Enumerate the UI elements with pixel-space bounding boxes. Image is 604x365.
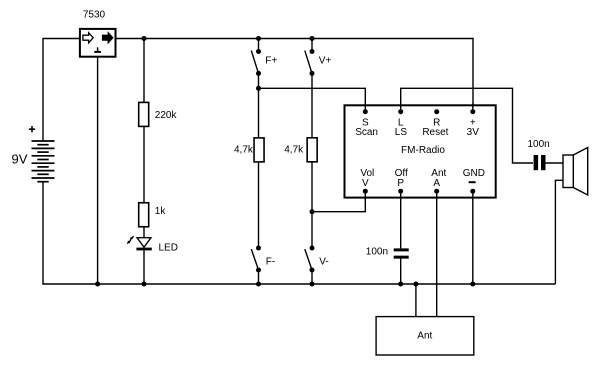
resistor R4 4,7k <box>307 138 317 162</box>
switch S3 F- <box>251 246 261 273</box>
pin Ant dot <box>434 189 439 194</box>
wire V- bottom to ground rail <box>311 270 313 284</box>
svg-text:7530: 7530 <box>83 10 106 21</box>
regulator ground symbol <box>97 47 99 51</box>
pin stubs through box edge <box>365 104 473 200</box>
battery B1 9V <box>32 141 55 182</box>
svg-text:Ant: Ant <box>417 331 432 342</box>
svg-text:220k: 220k <box>155 110 178 121</box>
regulator U2 7530 <box>80 29 116 57</box>
junction ground rail at GND pin <box>470 282 475 287</box>
regulator output arrow (solid) <box>103 33 113 43</box>
junction V-/Vol node <box>310 209 315 214</box>
svg-text:A: A <box>433 178 440 189</box>
svg-text:100n: 100n <box>366 247 388 258</box>
pin 3V dot <box>470 109 475 114</box>
wire LED to ground rail <box>143 250 145 285</box>
wire node to left 4,7k <box>258 88 260 137</box>
resistor R2 1k <box>139 203 149 227</box>
wire switch V+ top <box>311 39 313 52</box>
junction ground rail at V- <box>310 282 315 287</box>
junction top rail at F+ <box>256 36 261 41</box>
pin labels row Scan LS Reset 3V <box>355 127 479 138</box>
regulator input arrow (outline) <box>83 33 93 43</box>
junction F+/Scan node <box>256 86 261 91</box>
pin S dot <box>363 109 368 114</box>
svg-text:4,7k: 4,7k <box>284 144 304 155</box>
svg-text:9V: 9V <box>12 151 28 166</box>
wire switch V+ bottom through to 4,7k <box>311 73 313 137</box>
svg-text:V-: V- <box>319 256 328 267</box>
junction ground rail at F- <box>256 282 261 287</box>
wire GND pin to ground rail <box>472 191 474 284</box>
wire 1k to LED <box>143 227 145 238</box>
svg-text:V+: V+ <box>319 55 332 66</box>
wire battery+ to 7530 input <box>43 38 81 40</box>
svg-text:LED: LED <box>159 243 178 254</box>
wire 220k branch <box>143 39 145 103</box>
switch S2 V+ <box>305 49 315 76</box>
wire F- bottom to ground rail <box>258 270 260 284</box>
svg-text:3V: 3V <box>467 127 480 138</box>
wire 220k to 1k <box>143 127 145 202</box>
svg-text:F+: F+ <box>265 55 277 66</box>
pin Vol dot <box>363 189 368 194</box>
resistor R3 4,7k <box>254 138 264 162</box>
wire switch F+ bottom to node <box>258 73 260 88</box>
wire node F+ to Scan pin <box>259 88 366 112</box>
switch S1 F+ <box>251 49 261 76</box>
wire left 4,7k to F- switch <box>258 162 260 248</box>
svg-text:F-: F- <box>266 256 275 267</box>
pin R dot <box>434 109 439 114</box>
wire speaker bottom to ground rail <box>555 180 563 284</box>
speaker LS1 <box>563 148 588 196</box>
wire top rail 7530 output to 3V pin <box>116 39 474 112</box>
svg-text:Scan: Scan <box>355 127 378 138</box>
wire ground rail to Ant box <box>415 284 417 317</box>
pin labels row Vol Off Ant GND <box>360 168 485 179</box>
wire Off pin to 100n cap <box>400 191 402 248</box>
pin Off dot <box>398 189 403 194</box>
svg-text:FM-Radio: FM-Radio <box>401 145 445 156</box>
pin label minus <box>469 181 476 183</box>
battery plus sign <box>29 126 35 132</box>
wire cap to speaker <box>546 162 564 164</box>
wire right 4,7k to V- switch <box>311 162 313 248</box>
svg-text:100n: 100n <box>527 139 549 150</box>
svg-text:GND: GND <box>463 168 485 179</box>
pin L dot <box>398 109 403 114</box>
switch S4 V- <box>305 246 315 273</box>
svg-text:V: V <box>362 178 369 189</box>
wire switch F+ top <box>258 39 260 52</box>
LED D1 <box>127 236 152 249</box>
svg-text:Reset: Reset <box>422 127 448 138</box>
pin labels row V P A - <box>362 178 440 189</box>
svg-text:4,7k: 4,7k <box>234 144 254 155</box>
svg-text:P: P <box>397 178 404 189</box>
capacitor C2 100n (speaker) <box>536 155 543 170</box>
wire ground rail bottom <box>42 283 555 285</box>
antenna box Ant <box>376 317 474 355</box>
wire 100n cap to ground rail <box>400 259 402 284</box>
wire Ant pin to Ant box <box>436 191 438 317</box>
wire V node to Vol pin <box>312 191 365 212</box>
junction ground rail at LED <box>142 282 147 287</box>
junction ground rail at Ant <box>413 282 418 287</box>
junction ground rail at 7530 <box>95 282 100 287</box>
wire 7530 ground pin down <box>97 56 99 285</box>
pin GND dot <box>470 189 475 194</box>
wire LS pin to coupling cap <box>401 88 533 163</box>
capacitor C1 100n (Off pin) <box>394 250 409 257</box>
junction top rail at V+ <box>310 36 315 41</box>
wire battery bottom to ground rail <box>42 182 44 284</box>
wire left vertical to battery top <box>42 38 44 141</box>
pin labels row S L R + <box>362 117 476 128</box>
resistor R1 220k <box>139 102 149 126</box>
svg-text:1k: 1k <box>155 206 167 217</box>
junction top rail at 220k <box>142 36 147 41</box>
junction ground rail at C1 <box>398 282 403 287</box>
IC U1 FM-Radio module <box>345 105 496 197</box>
svg-text:LS: LS <box>395 127 408 138</box>
